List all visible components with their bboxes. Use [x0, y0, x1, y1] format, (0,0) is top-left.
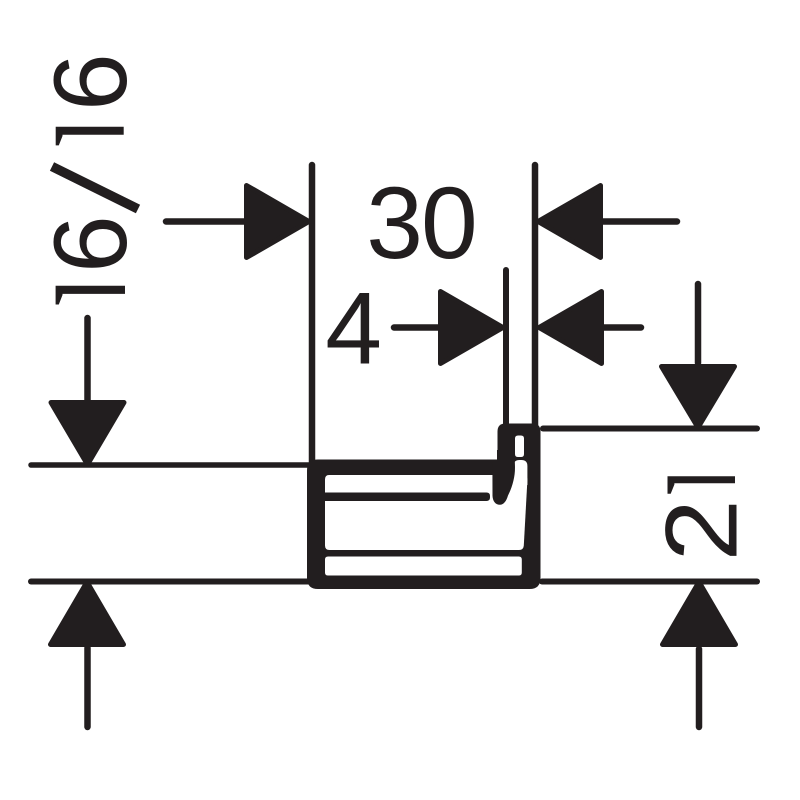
- arrowhead 30 pointing right: [247, 186, 310, 258]
- arrowhead 4 pointing right: [441, 292, 504, 364]
- profile interior upper cavity (white): [325, 475, 527, 550]
- dim 16/16 upper tail: [84, 318, 91, 400]
- profile internal bar 2: [321, 550, 530, 557]
- arrowhead 4 pointing left: [539, 292, 602, 364]
- glyph 1: [668, 476, 736, 494]
- dim 30 right tail: [598, 218, 677, 225]
- dim 21 lower tail: [696, 649, 703, 727]
- dim 4 left tail: [394, 324, 442, 331]
- reference line bottom-left: [31, 579, 308, 585]
- reference line top-right: [543, 426, 757, 432]
- reference line bottom-right: [542, 579, 757, 585]
- profile hook J: [492, 450, 515, 505]
- dim 21 upper tail: [695, 284, 702, 363]
- extension line right (30/4 dim, x3): [532, 165, 539, 426]
- arrowhead 21 pointing down: [662, 367, 735, 428]
- profile outer body: [307, 460, 541, 590]
- dim 30 left tail: [166, 218, 250, 225]
- arrowhead 21 pointing up: [663, 582, 736, 645]
- label 16/16 (rotated), composed: [33, 53, 149, 304]
- glyph 1 (bottom): [56, 286, 125, 305]
- profile gap right of hook (white): [514, 460, 528, 485]
- glyph 1 (second): [56, 127, 124, 146]
- profile hook slot (white): [515, 436, 524, 458]
- profile cross-section: [307, 424, 541, 590]
- extension line left (30 dim, x1): [309, 165, 316, 463]
- arrowhead 16/16 pointing down: [51, 403, 124, 465]
- svg-text:2: 2: [644, 499, 758, 561]
- glyph slash: [52, 167, 138, 210]
- arrowhead 30 pointing left: [538, 186, 601, 258]
- dim 4 right tail: [598, 324, 641, 331]
- label 21 (rotated), composed: [644, 476, 758, 561]
- dim 16/16 lower tail: [84, 648, 91, 727]
- svg-text:4: 4: [325, 272, 382, 386]
- svg-text:30: 30: [366, 166, 475, 280]
- svg-text:6: 6: [33, 53, 149, 111]
- profile interior bottom slot (white): [325, 557, 522, 576]
- arrowhead 16/16 pointing up: [51, 582, 124, 645]
- reference line top-left: [31, 462, 312, 468]
- profile hook block outer: [498, 424, 541, 473]
- extension line middle (4 dim, x2): [503, 270, 509, 426]
- profile internal bar 1: [325, 493, 490, 502]
- svg-text:6: 6: [33, 215, 149, 273]
